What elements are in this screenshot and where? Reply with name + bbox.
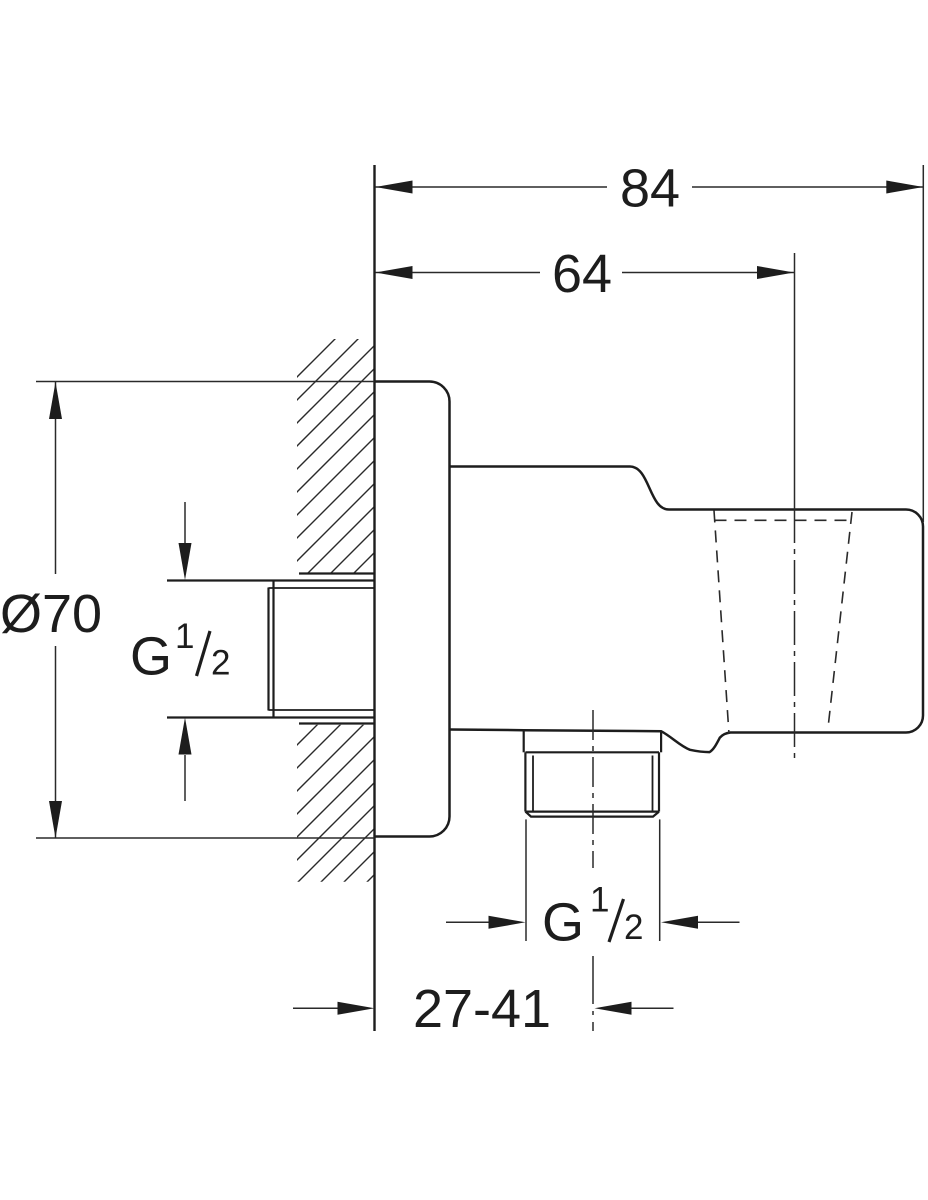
svg-text:2: 2 <box>211 644 230 683</box>
svg-text:64: 64 <box>552 244 612 304</box>
label G 1/2 (inlet) <box>130 617 230 687</box>
outlet G1/2 dimension <box>446 819 740 941</box>
wall hole edge top <box>299 572 375 574</box>
dimension 64 <box>376 266 795 279</box>
svg-text:84: 84 <box>620 159 680 219</box>
dimension 27-41 <box>293 1002 674 1015</box>
dimension 84 <box>376 165 924 522</box>
svg-text:G: G <box>130 627 172 687</box>
svg-text:G: G <box>542 893 584 953</box>
flange (escutcheon) <box>375 382 450 837</box>
nipple centerline <box>592 710 594 1031</box>
svg-text:Ø70: Ø70 <box>0 584 102 644</box>
svg-text:27-41: 27-41 <box>413 979 551 1039</box>
wall hole edge bottom <box>299 722 375 724</box>
wall face line <box>373 165 375 1031</box>
inlet union thread (left, through wall) <box>167 581 375 718</box>
svg-text:1: 1 <box>175 617 194 656</box>
inlet G1/2 dimension arrows <box>179 502 192 801</box>
holder cone hidden lines (dashed) <box>714 511 853 735</box>
svg-text:2: 2 <box>624 908 643 947</box>
dimension diameter 70 <box>36 382 375 839</box>
wall hatching <box>254 300 374 995</box>
body outline <box>450 467 924 753</box>
outlet nipple <box>524 731 661 817</box>
svg-text:1: 1 <box>590 881 609 920</box>
holder centerline (dash-dot) <box>794 253 796 759</box>
label G 1/2 (outlet) <box>542 881 643 953</box>
